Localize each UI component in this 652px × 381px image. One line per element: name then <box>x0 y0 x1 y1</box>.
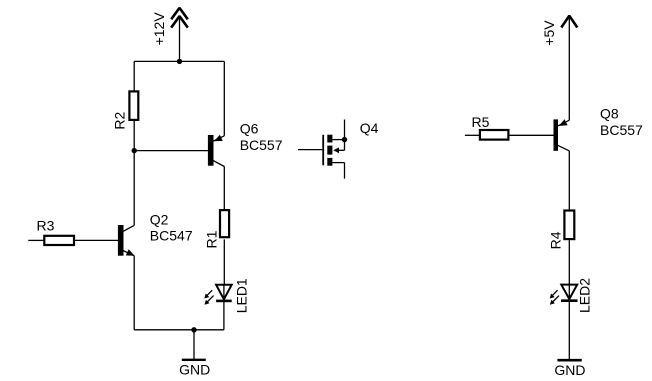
svg-text:Q8: Q8 <box>600 106 619 122</box>
svg-text:Q6: Q6 <box>240 121 259 137</box>
wire R1 to LED1 <box>223 239 225 284</box>
svg-text:BC547: BC547 <box>150 227 193 243</box>
svg-text:R5: R5 <box>472 114 490 130</box>
svg-text:Q4: Q4 <box>360 120 379 136</box>
svg-text:+5V: +5V <box>541 20 557 46</box>
wire Q2 emitter down <box>133 256 135 330</box>
wire LED1 to rail <box>223 301 225 330</box>
wire bottom rail <box>134 329 224 331</box>
junction base node <box>132 148 137 153</box>
wire Q6 base <box>134 150 208 152</box>
wire +5V to Q8 emitter <box>568 16 570 120</box>
mosfet Q4 <box>298 120 347 179</box>
wire base node to Q2 collector <box>133 151 135 226</box>
svg-text:R2: R2 <box>112 111 128 129</box>
resistor R2 <box>129 91 138 120</box>
wire Q8 collector to R4 <box>568 151 570 210</box>
svg-text:GND: GND <box>179 362 210 378</box>
svg-text:LED2: LED2 <box>576 278 592 313</box>
svg-text:LED1: LED1 <box>233 278 249 313</box>
LED LED2 <box>550 285 578 305</box>
resistor R3 <box>44 236 74 245</box>
supply +5V symbol <box>561 16 577 28</box>
wire R5 to Q8 base <box>510 134 554 136</box>
resistor R5 <box>480 130 509 140</box>
wire through LED2 <box>568 285 570 301</box>
wire R3 to Q2 base <box>74 239 118 241</box>
resistor R4 <box>564 211 574 240</box>
svg-text:Q2: Q2 <box>150 211 169 227</box>
LED LED1 <box>204 285 231 305</box>
wire Q6 emitter up <box>223 61 225 135</box>
wire R4 to LED2 <box>568 240 570 284</box>
wire R2 top <box>133 61 135 90</box>
transistor Q2 <box>118 225 135 256</box>
svg-text:BC557: BC557 <box>600 122 643 138</box>
resistor R1 <box>220 210 229 237</box>
svg-text:R1: R1 <box>204 230 220 248</box>
svg-text:R4: R4 <box>548 231 564 249</box>
svg-text:R3: R3 <box>37 217 55 233</box>
wire LED2 to GND <box>568 301 570 360</box>
wire R3 left stub <box>28 239 43 241</box>
svg-text:+12V: +12V <box>151 12 167 46</box>
transistor Q6 <box>208 135 224 167</box>
junction bottom rail <box>191 327 196 332</box>
wire R5 left stub <box>465 134 479 136</box>
ground GND left <box>182 359 206 361</box>
wire GND stem <box>193 330 195 359</box>
wire top rail <box>134 60 224 62</box>
junction top rail <box>177 59 182 64</box>
wire +12V stem <box>179 16 181 61</box>
svg-text:GND: GND <box>554 362 585 378</box>
transistor Q8 <box>554 119 570 151</box>
wire Q6 collector to R1 <box>223 167 225 210</box>
wire through LED1 <box>223 285 225 301</box>
wire R2 bottom <box>133 121 135 151</box>
ground GND right <box>557 359 581 362</box>
svg-text:BC557: BC557 <box>240 137 283 153</box>
supply +12V symbol <box>171 8 188 28</box>
